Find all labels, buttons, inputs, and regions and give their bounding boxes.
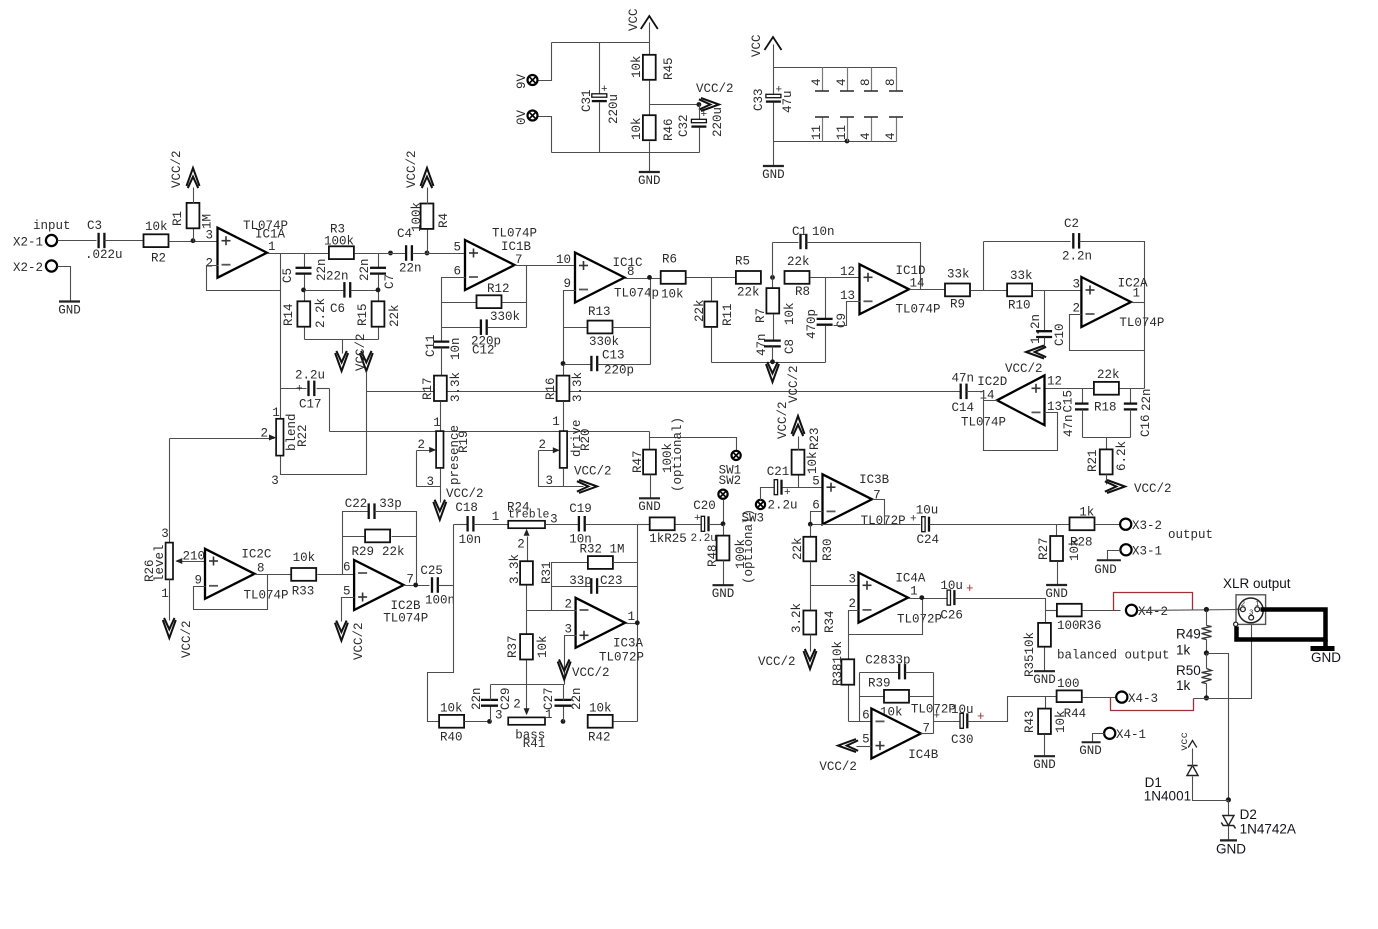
svg-text:10k: 10k	[630, 55, 644, 78]
capacitor C17	[281, 388, 307, 390]
svg-text:X4-1: X4-1	[1116, 728, 1146, 742]
wire	[1033, 290, 1082, 292]
svg-text:6.2k: 6.2k	[1115, 441, 1129, 471]
svg-text:330k: 330k	[490, 310, 520, 324]
svg-text:C8: C8	[783, 339, 797, 354]
wire red X4-2 link	[1114, 593, 1193, 611]
capacitor C23	[552, 586, 592, 588]
svg-text:22k: 22k	[787, 255, 810, 269]
svg-text:10k: 10k	[589, 702, 612, 716]
terminal X2-2	[46, 260, 57, 271]
svg-text:0V: 0V	[515, 109, 529, 125]
svg-text:100k: 100k	[410, 202, 424, 232]
wire SW3 to C21	[761, 488, 774, 501]
svg-text:2: 2	[517, 538, 525, 552]
svg-text:C7: C7	[383, 274, 397, 289]
wire	[539, 117, 552, 153]
svg-text:TL072P: TL072P	[599, 651, 644, 665]
svg-text:TL074P: TL074P	[492, 227, 537, 241]
wire C1 top loop	[772, 243, 774, 278]
svg-text:IC3B: IC3B	[859, 473, 890, 487]
supply VCC/2	[766, 364, 779, 382]
svg-text:8: 8	[884, 78, 898, 86]
svg-text:VCC/2: VCC/2	[776, 401, 790, 439]
svg-text:1: 1	[910, 585, 918, 599]
svg-text:7: 7	[873, 489, 881, 503]
svg-text:D2: D2	[1240, 807, 1257, 822]
resistor R44	[1057, 690, 1082, 702]
capacitor C22	[368, 503, 370, 519]
svg-text:1k: 1k	[1176, 643, 1191, 658]
wire feedback pin6	[442, 278, 466, 342]
svg-text:R40: R40	[440, 731, 463, 745]
svg-text:R33: R33	[292, 585, 315, 599]
svg-text:R47: R47	[631, 450, 645, 473]
wire to pin12	[811, 277, 861, 279]
svg-text:3: 3	[495, 709, 503, 723]
capacitor C1	[799, 234, 801, 249]
svg-text:5: 5	[862, 733, 870, 747]
wire C24 to X3	[930, 524, 1071, 526]
capacitor C30	[960, 713, 963, 728]
wire output IC2A	[1132, 302, 1145, 304]
node VCC/2 mid rail	[650, 104, 700, 106]
capacitor C19	[546, 524, 580, 526]
svg-text:2: 2	[564, 598, 572, 612]
resistor R8	[785, 271, 810, 284]
svg-text:C28: C28	[865, 654, 888, 668]
svg-text:9: 9	[194, 574, 202, 588]
wire level pin1 VCC/2	[169, 580, 171, 621]
node diodes	[1226, 797, 1231, 802]
wire C5 branch	[280, 254, 282, 420]
resistor R32	[588, 556, 613, 569]
ground	[649, 153, 651, 173]
svg-text:R21: R21	[1086, 449, 1100, 472]
wire feedback IC2C	[194, 575, 268, 610]
svg-text:22n: 22n	[1140, 388, 1154, 411]
svg-text:7: 7	[406, 573, 414, 587]
ground X3-1	[1108, 551, 1121, 561]
svg-text:33p: 33p	[569, 574, 592, 588]
svg-text:IC1C: IC1C	[613, 256, 643, 270]
svg-text:1: 1	[268, 240, 276, 254]
supply VCC/2 below R21	[1107, 480, 1125, 493]
resistor R36	[1057, 604, 1082, 617]
resistor R43	[1045, 697, 1047, 710]
svg-text:vcc: vcc	[1179, 732, 1191, 751]
wire C25 to vert	[439, 585, 454, 587]
svg-text:10k: 10k	[661, 288, 684, 302]
svg-text:R30: R30	[821, 538, 835, 561]
resistor R4	[427, 230, 429, 254]
capacitor C24	[922, 517, 925, 532]
svg-text:R27: R27	[1037, 537, 1051, 560]
resistor R49	[1206, 611, 1208, 626]
svg-text:GND: GND	[58, 303, 81, 317]
resistor R5	[736, 271, 761, 284]
svg-text:input: input	[33, 219, 71, 233]
svg-text:C31: C31	[580, 89, 594, 112]
svg-text:220p: 220p	[604, 364, 634, 378]
svg-text:VCC/2: VCC/2	[446, 487, 484, 501]
wire C26 to X4-2	[955, 599, 1046, 611]
svg-text:3: 3	[564, 623, 572, 637]
svg-text:R15: R15	[356, 303, 370, 326]
svg-text:1kR25: 1kR25	[649, 532, 687, 546]
wire R32/C23 left	[552, 563, 589, 611]
resistor R31	[520, 561, 533, 585]
svg-text:VCC/2: VCC/2	[352, 622, 366, 660]
wire output IC1C	[625, 278, 662, 280]
thick shield wire	[1237, 610, 1326, 640]
terminal X3-1	[1120, 544, 1131, 555]
XLR connector	[1236, 595, 1266, 625]
wire feedback IC4A	[849, 599, 923, 635]
svg-text:+: +	[701, 109, 708, 121]
ground R35	[1034, 670, 1055, 672]
wire C2 top	[984, 241, 1071, 243]
svg-text:+: +	[934, 711, 941, 723]
svg-text:R49: R49	[1176, 627, 1201, 642]
svg-text:R4: R4	[437, 213, 451, 228]
svg-text:IC2C: IC2C	[241, 548, 271, 562]
terminal X3-2	[1120, 519, 1131, 530]
svg-text:SW3: SW3	[742, 512, 765, 526]
svg-text:11: 11	[810, 125, 824, 140]
wire bottom rail	[305, 339, 379, 341]
svg-text:VCC/2: VCC/2	[572, 666, 610, 680]
svg-text:R5: R5	[735, 255, 750, 269]
wire C2 drop	[983, 242, 985, 291]
wire feedback/output IC3B	[811, 512, 823, 525]
resistor R48	[723, 525, 725, 537]
supply VCC/2 below	[342, 340, 344, 354]
svg-text:6: 6	[812, 499, 820, 513]
svg-text:2: 2	[538, 438, 546, 452]
svg-text:R29: R29	[352, 545, 375, 559]
wire right vertical (IC3A out bus)	[637, 525, 639, 722]
wire presence wiper	[417, 450, 435, 452]
svg-text:VCC/2: VCC/2	[170, 150, 184, 188]
svg-text:2.2n: 2.2n	[1062, 250, 1092, 264]
svg-text:C21: C21	[767, 465, 790, 479]
capacitor C26	[947, 590, 950, 605]
ground R48	[713, 584, 734, 586]
svg-text:3: 3	[1072, 278, 1080, 292]
svg-text:22n: 22n	[470, 687, 484, 710]
ground R27	[1046, 584, 1067, 586]
svg-text:2.2u: 2.2u	[768, 499, 798, 513]
svg-text:6: 6	[343, 561, 351, 575]
terminal X4-1	[1104, 728, 1115, 739]
wire	[614, 721, 638, 723]
svg-text:C32: C32	[677, 114, 691, 137]
resistor R40	[439, 715, 464, 728]
capacitor C15	[1082, 389, 1084, 405]
resistor R16	[557, 376, 570, 401]
wire feedback IC2D	[984, 401, 1058, 451]
svg-text:5: 5	[453, 241, 461, 255]
wire	[1096, 524, 1121, 526]
svg-text:C22: C22	[345, 497, 368, 511]
svg-text:6: 6	[862, 709, 870, 723]
svg-text:22n: 22n	[326, 270, 349, 284]
wire to pin3	[169, 241, 219, 243]
resistor R14	[297, 301, 310, 326]
resistor R15	[372, 301, 385, 326]
wire bottom rail	[552, 152, 700, 154]
svg-text:R10: R10	[1008, 299, 1031, 313]
potentiometer R22 blend	[276, 419, 283, 456]
svg-text:2: 2	[513, 698, 521, 712]
wire blend wiper	[170, 438, 275, 440]
wire output IC2C	[255, 574, 291, 576]
svg-text:100n: 100n	[425, 594, 455, 608]
svg-text:3.3k: 3.3k	[571, 372, 585, 402]
wire C17 to bus	[329, 389, 331, 432]
wire red X4-3 link	[1111, 698, 1194, 711]
resistor R50	[1206, 654, 1208, 669]
wire C22/R29 loop	[343, 512, 370, 575]
svg-text:10n: 10n	[459, 533, 482, 547]
wire	[676, 524, 701, 526]
terminal X4-3	[1116, 692, 1127, 703]
svg-text:+: +	[694, 513, 701, 525]
svg-text:330k: 330k	[589, 335, 619, 349]
capacitor C20	[701, 516, 704, 531]
resistor R33	[291, 568, 316, 581]
ground R43	[1034, 755, 1055, 757]
wire to IC3B pin5	[783, 487, 823, 489]
capacitor C31	[599, 43, 601, 96]
svg-text:R41: R41	[523, 737, 546, 751]
svg-text:GND: GND	[1079, 744, 1102, 758]
svg-text:33p: 33p	[888, 654, 911, 668]
wire R3 to C4	[355, 253, 407, 255]
svg-text:22n: 22n	[570, 687, 584, 710]
svg-text:VCC/2: VCC/2	[405, 150, 419, 188]
svg-text:IC4A: IC4A	[895, 572, 926, 586]
capacitor C29	[490, 707, 492, 722]
svg-text:R11: R11	[721, 303, 735, 326]
svg-text:R9: R9	[950, 298, 965, 312]
svg-text:C6: C6	[330, 302, 345, 316]
svg-text:GND: GND	[1033, 673, 1056, 687]
wire C30 right	[968, 697, 1058, 722]
svg-text:220u: 220u	[711, 107, 725, 137]
op-amp IC3A	[576, 598, 626, 648]
svg-text:C27: C27	[542, 687, 556, 710]
node	[770, 275, 775, 280]
svg-text:14: 14	[910, 277, 925, 291]
svg-text:C13: C13	[602, 349, 625, 363]
svg-text:10k: 10k	[806, 451, 820, 474]
svg-text:R42: R42	[588, 731, 611, 745]
svg-text:C15: C15	[1062, 390, 1076, 413]
svg-text:2: 2	[417, 438, 425, 452]
resistor R12	[442, 302, 477, 304]
switch SW2	[718, 490, 727, 499]
wire X4-3 to XLR pin3	[1194, 621, 1252, 699]
capacitor C4	[405, 245, 407, 261]
resistor R27	[1056, 525, 1058, 537]
wire pin5 VCC/2	[342, 598, 355, 622]
resistor R46	[643, 115, 656, 140]
capacitor C8	[764, 339, 781, 341]
svg-text:VCC: VCC	[750, 34, 764, 57]
svg-text:GND: GND	[1311, 650, 1341, 665]
capacitor C32	[699, 105, 701, 121]
resistor R35	[1045, 611, 1047, 624]
svg-text:TL072P: TL072P	[897, 613, 942, 627]
svg-text:33k: 33k	[947, 268, 970, 282]
svg-text:1N4001: 1N4001	[1144, 789, 1191, 804]
svg-text:47n: 47n	[951, 372, 974, 386]
op-amp IC1B	[465, 240, 515, 290]
svg-text:7: 7	[515, 253, 523, 267]
svg-text:47n: 47n	[1062, 414, 1076, 437]
resistor R47	[649, 438, 651, 451]
svg-text:33k: 33k	[1010, 269, 1033, 283]
resistor R42	[588, 715, 613, 728]
capacitor C28	[860, 672, 900, 674]
capacitor C21	[774, 480, 777, 495]
wire C29/C27 rail	[491, 684, 565, 686]
svg-text:1: 1	[433, 416, 441, 430]
wire drive pin3	[563, 469, 565, 487]
svg-text:TL074P: TL074P	[244, 589, 289, 603]
svg-text:3: 3	[1249, 608, 1253, 617]
svg-text:5: 5	[343, 585, 351, 599]
ground X2-2	[58, 267, 71, 303]
wire to level pot	[169, 439, 171, 543]
svg-text:5: 5	[812, 475, 820, 489]
svg-text:4: 4	[810, 78, 824, 86]
wire output IC1D	[910, 289, 946, 291]
svg-text:R32: R32	[580, 543, 603, 557]
wire pin12 line	[1045, 388, 1145, 390]
resistor R38	[848, 635, 850, 661]
svg-text:X2-1: X2-1	[13, 236, 43, 250]
diode D1	[1193, 777, 1229, 801]
svg-text:2.2k: 2.2k	[314, 298, 328, 328]
wire R16 to drive	[563, 402, 565, 432]
capacitor C11	[433, 340, 449, 342]
resistor R18	[1094, 382, 1119, 395]
svg-text:X4-2: X4-2	[1138, 605, 1168, 619]
wire C4 to IC1B	[413, 253, 466, 255]
svg-text:R8: R8	[795, 285, 810, 299]
resistor R3	[329, 246, 354, 259]
svg-text:TL074p: TL074p	[614, 287, 659, 301]
svg-text:2: 2	[1072, 302, 1080, 316]
svg-text:R45: R45	[662, 57, 676, 80]
wire output drop IC1C	[650, 278, 652, 365]
capacitor C6	[305, 290, 345, 292]
svg-text:R16: R16	[544, 377, 558, 400]
svg-text:22k: 22k	[791, 537, 805, 560]
svg-text:VCC/2: VCC/2	[1134, 482, 1172, 496]
supply VCC/2 drive	[579, 480, 597, 493]
capacitor C33	[773, 68, 775, 97]
svg-text:1: 1	[628, 610, 636, 624]
svg-text:10k: 10k	[630, 117, 644, 140]
wire / node	[709, 524, 724, 526]
resistor R1	[193, 229, 195, 242]
svg-text:10k: 10k	[536, 635, 550, 658]
op-amp IC1A	[218, 228, 268, 278]
capacitor C25	[431, 577, 433, 593]
svg-text:(optional): (optional)	[671, 417, 685, 492]
svg-text:1: 1	[272, 406, 280, 420]
svg-text:10: 10	[556, 253, 571, 267]
wire vertical C18/C25/R40	[428, 525, 454, 722]
svg-text:TL074P: TL074P	[896, 303, 941, 317]
svg-text:GND: GND	[1033, 758, 1056, 772]
capacitor C7	[378, 254, 380, 269]
wire	[1083, 437, 1131, 439]
resistor R9	[945, 284, 970, 297]
svg-text:C12: C12	[472, 344, 495, 358]
supply VCC/2 on bus	[360, 353, 373, 371]
svg-text:R3810k: R3810k	[831, 641, 845, 686]
resistor R7	[772, 278, 774, 289]
svg-text:1k: 1k	[1176, 678, 1191, 693]
svg-text:C1: C1	[792, 225, 807, 239]
ground R47	[639, 497, 660, 499]
svg-text:R1: R1	[171, 211, 185, 226]
svg-text:9V: 9V	[515, 73, 529, 89]
capacitor C9	[825, 278, 827, 320]
svg-text:R17: R17	[421, 377, 435, 400]
resistor R34	[810, 586, 812, 611]
svg-text:2.2u: 2.2u	[691, 533, 717, 545]
resistor R30	[810, 525, 812, 538]
svg-text:balanced output: balanced output	[1057, 649, 1170, 663]
svg-text:6: 6	[453, 265, 461, 279]
diode D2 zener	[1228, 801, 1230, 817]
svg-text:22k: 22k	[737, 286, 760, 300]
wire pin6	[849, 721, 872, 723]
svg-text:3: 3	[271, 474, 279, 488]
capacitor C12	[442, 327, 482, 329]
svg-text:10u: 10u	[951, 703, 974, 717]
svg-text:VCC/2: VCC/2	[180, 620, 194, 658]
node R49 top	[1204, 607, 1209, 612]
wire pin2	[527, 610, 577, 612]
resistor R2	[144, 234, 169, 247]
svg-text:C33: C33	[752, 88, 766, 111]
svg-text:1: 1	[545, 708, 553, 722]
wire	[807, 243, 921, 290]
wire input	[58, 240, 97, 242]
capacitor C3	[97, 233, 99, 248]
op-amp IC4A	[859, 573, 909, 623]
wire output IC2B	[404, 585, 430, 587]
svg-text:.022u: .022u	[85, 248, 123, 262]
svg-text:R12: R12	[487, 282, 510, 296]
svg-text:3.3k: 3.3k	[449, 372, 463, 402]
svg-text:GND: GND	[1216, 842, 1246, 857]
wire feedback pin2 IC2A	[1070, 315, 1145, 351]
wire output drop	[526, 266, 528, 328]
svg-text:IC3A: IC3A	[613, 637, 644, 651]
wire to X4-3	[1083, 697, 1117, 699]
svg-text:VCC/2: VCC/2	[819, 760, 857, 774]
svg-text:+: +	[296, 384, 303, 396]
wire	[539, 43, 552, 81]
